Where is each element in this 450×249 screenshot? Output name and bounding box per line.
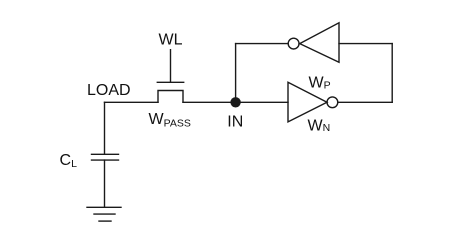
- capacitor C_L top plate: [92, 153, 119, 155]
- inverter U2 output bubble: [327, 97, 338, 108]
- ground bar 1: [87, 206, 121, 208]
- svg-text:WPASS: WPASS: [149, 111, 191, 129]
- wire: LOAD branch vertical (rail down to capacitor): [104, 102, 106, 154]
- wire: bottom-right horizontal from inverter U2 bubble to loop: [338, 101, 392, 103]
- wire: rail from transistor drain to node IN and inverter input: [183, 101, 288, 103]
- wire: gate lead up to WL: [170, 50, 172, 83]
- svg-text:WP: WP: [309, 75, 331, 92]
- wire: inverter U1 input from right vertical: [339, 43, 392, 45]
- inverter U1 output bubble: [288, 38, 299, 49]
- svg-text:WL: WL: [159, 31, 183, 48]
- transistor W_PASS channel (source-drain bump): [158, 91, 183, 103]
- wire: vertical from node IN up to feedback loop: [235, 44, 237, 103]
- transistor W_PASS gate plate: [157, 81, 183, 83]
- svg-text:WN: WN: [308, 118, 331, 135]
- node IN junction dot: [230, 97, 240, 107]
- svg-text:LOAD: LOAD: [87, 82, 131, 99]
- ground bar 2: [94, 213, 115, 215]
- wire: rail from LOAD corner to transistor source: [105, 101, 159, 103]
- inverter U2 (forward inverter W_P/W_N, points right): [288, 82, 327, 122]
- capacitor C_L bottom plate: [92, 159, 119, 161]
- wire: feedback top-left horizontal to inverter U1 output bubble: [236, 43, 289, 45]
- wire: capacitor to ground: [104, 160, 106, 207]
- svg-text:CL: CL: [60, 152, 78, 170]
- inverter U1 (feedback inverter, points left): [300, 23, 339, 63]
- svg-text:IN: IN: [227, 113, 243, 130]
- ground bar 3: [99, 220, 111, 222]
- wire: right vertical of feedback loop: [391, 44, 393, 103]
